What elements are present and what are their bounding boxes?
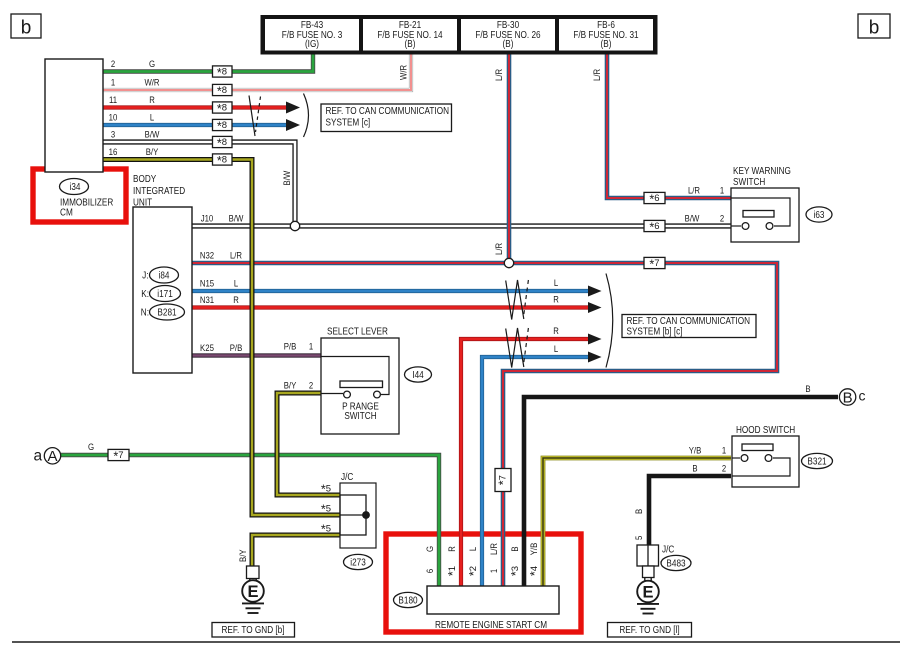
wire marker *8 [213,102,233,116]
svg-text:B321: B321 [807,457,827,468]
svg-text:G: G [88,442,94,453]
wire L/R fuse FB-30 drop to junction [507,53,512,263]
svg-text:G: G [425,546,436,552]
svg-text:P/B: P/B [230,343,243,354]
remote CM pin *4 label Y/B [528,543,542,576]
svg-text:REF. TO CAN COMMUNICATION: REF. TO CAN COMMUNICATION [326,106,450,117]
svg-text:B180: B180 [398,596,418,607]
connector ref I44 [405,367,432,382]
svg-text:KEY WARNING: KEY WARNING [733,166,791,177]
svg-text:HOOD SWITCH: HOOD SWITCH [736,425,795,436]
immobilizer pin 10 label L [109,113,155,124]
svg-text:*8: *8 [217,119,227,133]
svg-text:10: 10 [109,113,118,124]
wire marker *8 [213,84,233,98]
svg-text:*8: *8 [217,154,227,168]
svg-text:N32: N32 [200,251,214,262]
wire marker *7 (L/R horizontal) [644,257,665,271]
svg-text:5: 5 [634,536,645,540]
wire L immobilizer pin10 to CAN arrow [103,123,287,127]
wire B hood switch pin2 to J/C B483 [649,476,731,545]
remote CM pin *2 label L [467,547,481,576]
wire marker *6 (B/W) [644,220,665,234]
svg-text:i171: i171 [157,289,173,300]
wire marker *6 (L/R) [644,192,665,206]
svg-text:b: b [21,18,32,39]
svg-text:B: B [692,464,697,475]
svg-text:i84: i84 [159,271,170,282]
key warning switch pin 2 label [685,214,724,225]
CAN arrow R (top) [286,102,300,114]
svg-text:11: 11 [109,95,117,106]
immobilizer pin 1 label W/R [111,78,160,89]
page link b (top-left) [11,14,41,39]
svg-text:3: 3 [111,130,115,141]
svg-text:N31: N31 [200,295,214,306]
wire B/W J10 to key warning switch pin2 [192,223,731,228]
fuse block F/B [261,15,658,55]
fuse FB-43 [265,19,359,51]
svg-text:B/W: B/W [145,130,160,141]
svg-text:L: L [234,279,238,290]
page link b (top-right) [858,14,890,39]
immobilizer pin 3 label B/W [111,130,160,141]
body unit pin J10 label B/W [201,214,244,225]
wire marker *8 [213,136,233,150]
svg-text:B281: B281 [157,308,177,319]
svg-text:L: L [150,113,154,124]
junction circle on L/R [504,258,513,267]
ground connector (left) [247,566,260,579]
svg-text:J/C: J/C [662,545,674,556]
svg-text:1: 1 [111,78,115,89]
wire break symbol (L/R pair upper) [506,280,529,320]
hood switch pin 2 label [692,464,726,475]
wire R CAN arrow to remote engine start CM pin *1 [461,339,589,586]
wire L N15 to CAN arrow [192,289,589,293]
svg-text:SYSTEM [b] [c]: SYSTEM [b] [c] [627,326,683,337]
in-line connector B [839,388,865,407]
REF. TO CAN COMMUNICATION SYSTEM [b] [c] box [622,315,756,338]
wire marker *8 [213,66,233,80]
wire marker *7 (G wire) [108,449,129,463]
svg-text:E: E [247,583,258,601]
remote CM pin 1 label L/R [489,543,500,573]
svg-text:16: 16 [109,147,118,158]
svg-text:1: 1 [489,569,500,573]
bracket (top CAN) [304,94,309,138]
svg-text:i34: i34 [70,182,81,193]
wire P/B K25 to select lever pin1 [192,353,321,357]
key warning switch pin 1 label [688,186,724,197]
fuse FB-30 [461,19,555,51]
body unit pin N15 label L [200,279,238,290]
svg-text:BODY: BODY [133,174,156,185]
svg-text:(B): (B) [405,39,416,50]
svg-text:L/R: L/R [494,243,505,255]
wire L/R fuse FB-6 to key warning switch pin1 [607,53,731,198]
svg-text:B/Y: B/Y [146,147,159,158]
svg-text:L: L [468,547,479,551]
svg-text:B/Y: B/Y [238,549,249,562]
bracket (middle CAN) [606,274,613,368]
CAN arrow L (middle) [588,286,602,297]
svg-text:SYSTEM [c]: SYSTEM [c] [326,117,371,128]
svg-text:L: L [554,278,558,289]
select lever pin 2 label [284,381,313,392]
REF. TO CAN COMMUNICATION SYSTEM [c] box [321,104,452,132]
connector ref J: i84 [142,267,178,283]
svg-text:1: 1 [722,446,726,457]
svg-text:*3: *3 [509,566,523,576]
svg-text:R: R [149,95,155,106]
body unit pin N31 label R [200,295,239,306]
select lever pin 1 label [284,342,313,353]
junction connector J/C i273 [340,472,376,548]
svg-text:*8: *8 [217,136,227,150]
svg-text:B: B [843,389,853,406]
connector ref i273 [344,554,373,569]
junction circle on B/W [290,221,299,230]
svg-text:b: b [869,18,880,39]
wire L/R N32 via *7 to remote engine start CM [192,263,777,586]
immobilizer CM highlight box i34 [33,169,126,222]
svg-text:REF. TO GND [l]: REF. TO GND [l] [619,625,679,636]
CAN arrow L (top) [286,119,300,131]
svg-text:*7: *7 [649,257,659,271]
svg-text:G: G [149,59,155,70]
svg-text:K25: K25 [200,343,214,354]
in-line connector A [34,448,61,466]
svg-text:P/B: P/B [284,342,297,353]
svg-text:(B): (B) [601,39,612,50]
svg-text:A: A [47,448,57,465]
svg-text:*4: *4 [528,566,542,576]
wire Y/B hood switch pin1 to remote engine start CM pin *4 [543,458,731,586]
svg-text:2: 2 [111,59,115,70]
wire break symbol (R/L pair lower) [506,328,529,368]
svg-text:R: R [447,546,458,552]
svg-text:2: 2 [309,381,313,392]
svg-text:B/Y: B/Y [284,381,297,392]
fuse FB-6 [559,19,653,51]
svg-text:(IG): (IG) [305,39,319,50]
svg-text:R: R [553,326,559,337]
key warning switch i63 [731,166,799,242]
svg-text:B: B [805,384,810,395]
wire G connector A to remote engine start CM pin 6 [61,455,439,586]
wire R N31 to CAN arrow [192,305,589,309]
svg-text:*8: *8 [217,66,227,80]
body integrated unit box [133,174,192,373]
svg-text:REMOTE ENGINE START CM: REMOTE ENGINE START CM [435,620,547,631]
svg-text:Y/B: Y/B [529,543,540,556]
wire B/Y select lever pin2 to J/C i273 [277,393,340,495]
svg-text:L/R: L/R [592,69,603,81]
wire B/W immobilizer pin3 down to junction [103,142,295,226]
wire W/R immobilizer pin1 to fuse FB-21 [103,53,411,90]
svg-text:B/W: B/W [282,171,293,186]
svg-text:6: 6 [425,569,436,573]
svg-text:*7: *7 [113,449,123,463]
svg-text:*6: *6 [649,192,659,206]
svg-text:i63: i63 [814,210,825,221]
ground E symbol (right) [637,578,659,614]
svg-text:Y/B: Y/B [689,446,702,457]
svg-text:a: a [34,448,43,465]
wire marker *8 [213,154,233,168]
remote CM pin *3 label B [509,546,523,576]
remote CM pin 6 label G [425,546,436,573]
svg-text:J/C: J/C [341,472,353,483]
svg-text:*8: *8 [217,84,227,98]
svg-text:B483: B483 [666,559,686,570]
svg-text:SWITCH: SWITCH [344,411,376,422]
REF. TO GND [b] box [212,623,295,638]
svg-text:L/R: L/R [489,543,500,555]
wire L CAN arrow to remote engine start CM pin *2 [482,357,589,586]
body unit pin N32 label L/R [200,251,242,262]
svg-text:*8: *8 [217,102,227,116]
remote CM pin *1 label R [446,546,460,576]
REF. TO GND [l] box [608,623,692,638]
remote engine start CM connector box [427,586,559,614]
svg-text:c: c [859,388,866,404]
svg-text:2: 2 [720,214,724,225]
svg-text:B/W: B/W [685,214,700,225]
remote engine start CM highlight box [386,534,581,632]
diagram bottom border [12,641,900,643]
svg-text:CM: CM [60,207,73,218]
svg-text:L/R: L/R [230,251,242,262]
immobilizer pin 2 label G [111,59,155,70]
wire marker *7 (L/R vertical, rotated) [495,469,511,492]
svg-text:*2: *2 [467,566,481,576]
junction dot J/C i273 [362,511,370,519]
wire B/Y J/C i273 to ground E [252,535,340,566]
svg-text:N:: N: [141,308,149,319]
wire G immobilizer pin2 to fuse FB-43 [103,53,313,72]
svg-text:L/R: L/R [688,186,700,197]
svg-text:B: B [634,509,645,514]
svg-text:B/W: B/W [229,214,244,225]
svg-text:1: 1 [720,186,724,197]
immobilizer pin 11 label R [109,95,155,106]
svg-text:1: 1 [309,342,313,353]
svg-text:REF. TO CAN COMMUNICATION: REF. TO CAN COMMUNICATION [627,316,751,327]
connector ref N: B281 [141,304,185,320]
svg-text:B: B [510,546,521,551]
wire break symbol (top R/L) [249,96,261,137]
svg-text:J:: J: [142,271,148,282]
svg-text:L/R: L/R [494,69,505,81]
svg-text:I44: I44 [412,370,424,381]
svg-text:E: E [642,584,653,602]
ground E symbol (left) [242,578,264,613]
svg-text:SWITCH: SWITCH [733,177,765,188]
hood switch pin 1 label [689,446,726,457]
svg-text:SELECT LEVER: SELECT LEVER [327,326,388,337]
svg-text:(B): (B) [503,39,514,50]
svg-text:*1: *1 [446,566,460,576]
svg-text:REF. TO GND [b]: REF. TO GND [b] [222,625,285,636]
hood switch B321 [732,425,799,487]
connector ref i63 [806,207,832,222]
select lever switch I44 [321,326,399,434]
svg-text:W/R: W/R [144,78,159,89]
svg-text:N15: N15 [200,279,214,290]
CAN arrow R (lower) [588,334,602,345]
connector ref B321 [802,453,833,468]
wire R immobilizer pin11 to CAN arrow [103,105,287,109]
wire B/Y immobilizer pin16 to J/C i273 [103,160,340,516]
svg-text:R: R [233,295,239,306]
CAN arrow R (middle) [588,302,602,313]
immobilizer pin 16 label B/Y [109,147,159,158]
immobilizer CM connector box i34 [45,59,103,172]
connector ref B180 [394,592,423,607]
wire B connector B to remote engine start CM pin *3 [524,397,838,586]
connector ref B483 [661,555,691,570]
svg-text:*6: *6 [649,220,659,234]
fuse FB-21 [363,19,457,51]
CAN arrow L (lower) [588,352,602,363]
body unit pin K25 label P/B [200,343,242,354]
svg-text:R: R [553,295,559,306]
svg-text:W/R: W/R [399,65,410,80]
wire marker *8 [213,119,233,133]
svg-text:INTEGRATED: INTEGRATED [133,186,185,197]
svg-text:L: L [554,344,558,355]
svg-text:2: 2 [722,464,726,475]
junction connector J/C B483 [637,545,674,578]
svg-text:J10: J10 [201,214,214,225]
svg-text:K:: K: [141,289,149,300]
connector ref K: i171 [141,286,180,302]
svg-text:i273: i273 [350,558,366,569]
